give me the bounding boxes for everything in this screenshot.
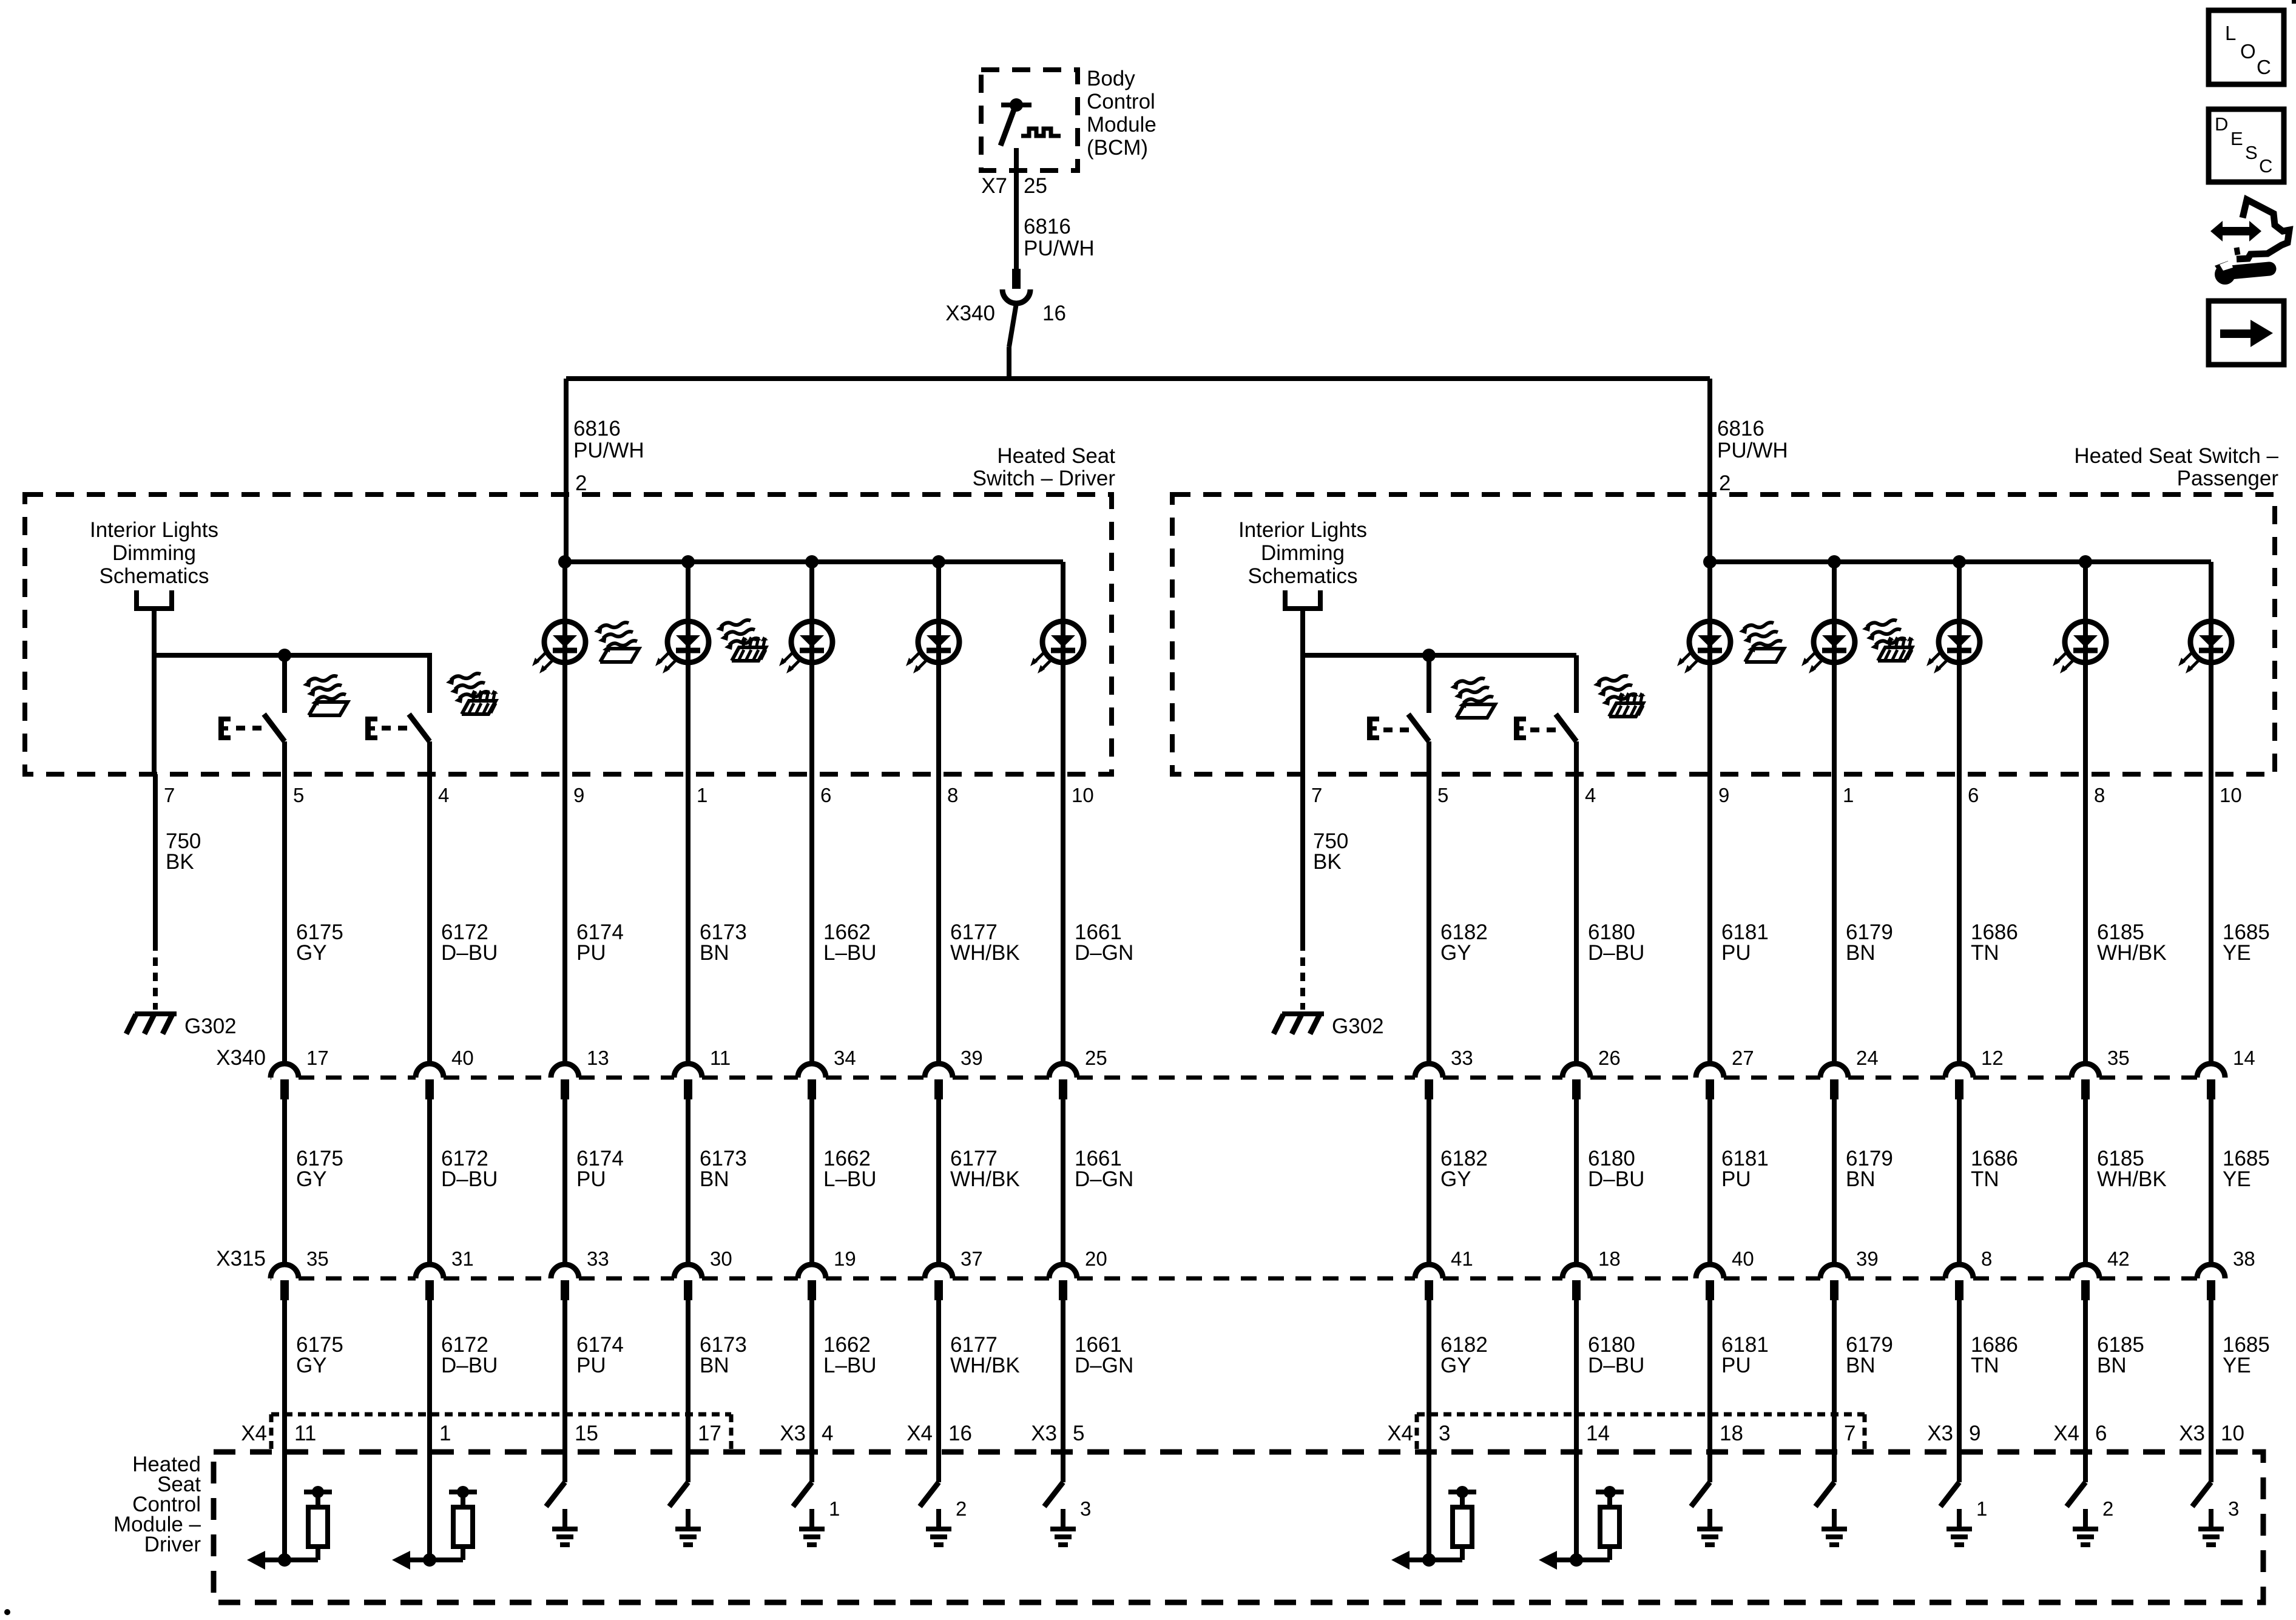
- svg-text:PU/WH: PU/WH: [573, 439, 644, 462]
- svg-text:X7: X7: [981, 174, 1007, 198]
- svg-text:E: E: [2230, 128, 2243, 149]
- svg-text:34: 34: [834, 1047, 856, 1069]
- svg-text:6816: 6816: [1024, 215, 1071, 238]
- svg-text:WH/BK: WH/BK: [2097, 1167, 2167, 1191]
- svg-text:PU: PU: [1721, 941, 1751, 965]
- svg-text:26: 26: [1598, 1047, 1621, 1069]
- svg-text:WH/BK: WH/BK: [950, 1354, 1020, 1377]
- svg-text:X340: X340: [216, 1046, 266, 1070]
- svg-text:BN: BN: [1846, 1167, 1876, 1191]
- svg-text:6: 6: [820, 784, 831, 806]
- svg-text:GY: GY: [1440, 1354, 1471, 1377]
- svg-text:1: 1: [1976, 1497, 1987, 1520]
- svg-text:D: D: [2215, 113, 2228, 135]
- svg-text:X4: X4: [2053, 1422, 2079, 1445]
- svg-text:10: 10: [2221, 1422, 2244, 1445]
- svg-text:16: 16: [948, 1422, 972, 1445]
- svg-text:X4: X4: [907, 1422, 933, 1445]
- svg-text:BN: BN: [700, 1354, 729, 1377]
- svg-text:TN: TN: [1971, 1167, 1999, 1191]
- svg-text:PU: PU: [1721, 1167, 1751, 1191]
- svg-text:GY: GY: [1440, 941, 1471, 965]
- svg-text:31: 31: [451, 1247, 474, 1270]
- svg-text:BN: BN: [2097, 1354, 2127, 1377]
- svg-text:10: 10: [2220, 784, 2242, 806]
- svg-text:35: 35: [2107, 1047, 2130, 1069]
- svg-text:19: 19: [834, 1247, 856, 1270]
- svg-text:11: 11: [294, 1422, 316, 1445]
- svg-text:BK: BK: [166, 850, 194, 874]
- svg-text:10: 10: [1072, 784, 1094, 806]
- svg-text:6: 6: [2095, 1422, 2107, 1445]
- svg-text:L–BU: L–BU: [823, 1167, 877, 1191]
- svg-text:PU/WH: PU/WH: [1717, 439, 1788, 462]
- svg-text:3: 3: [1080, 1497, 1091, 1520]
- svg-text:Heated Seat: Heated Seat: [997, 444, 1115, 468]
- svg-text:GY: GY: [296, 1167, 327, 1191]
- svg-text:S: S: [2245, 142, 2258, 163]
- svg-text:8: 8: [1981, 1247, 1992, 1270]
- svg-text:(BCM): (BCM): [1087, 136, 1148, 160]
- svg-text:27: 27: [1732, 1047, 1754, 1069]
- svg-text:1: 1: [697, 784, 707, 806]
- svg-text:2: 2: [575, 471, 587, 495]
- svg-text:L: L: [2225, 22, 2236, 44]
- svg-text:9: 9: [573, 784, 584, 806]
- svg-text:4: 4: [438, 784, 449, 806]
- svg-text:D–GN: D–GN: [1075, 941, 1133, 965]
- svg-text:X3: X3: [780, 1422, 806, 1445]
- svg-text:4: 4: [1585, 784, 1596, 806]
- svg-text:Control: Control: [1087, 90, 1155, 113]
- svg-text:40: 40: [451, 1047, 474, 1069]
- svg-text:Heated Seat Switch –: Heated Seat Switch –: [2074, 444, 2278, 468]
- svg-text:Dimming: Dimming: [1261, 541, 1345, 565]
- svg-text:20: 20: [1085, 1247, 1107, 1270]
- svg-text:D–BU: D–BU: [441, 1354, 498, 1377]
- svg-text:42: 42: [2107, 1247, 2130, 1270]
- svg-text:Body: Body: [1087, 67, 1135, 90]
- svg-text:2: 2: [2102, 1497, 2113, 1520]
- svg-text:Interior Lights: Interior Lights: [1238, 518, 1367, 542]
- svg-text:39: 39: [961, 1047, 983, 1069]
- svg-text:5: 5: [293, 784, 304, 806]
- svg-text:17: 17: [698, 1422, 721, 1445]
- svg-text:PU: PU: [1721, 1354, 1751, 1377]
- svg-text:X3: X3: [2179, 1422, 2205, 1445]
- svg-text:PU: PU: [576, 941, 606, 965]
- svg-text:BN: BN: [700, 1167, 729, 1191]
- svg-text:25: 25: [1024, 174, 1047, 198]
- svg-text:D–BU: D–BU: [1588, 941, 1644, 965]
- svg-text:18: 18: [1720, 1422, 1743, 1445]
- svg-text:O: O: [2240, 40, 2256, 62]
- svg-text:G302: G302: [184, 1014, 237, 1038]
- svg-text:16: 16: [1042, 302, 1066, 325]
- svg-text:Interior Lights: Interior Lights: [90, 518, 218, 542]
- svg-text:12: 12: [1981, 1047, 2004, 1069]
- svg-text:X4: X4: [1387, 1422, 1413, 1445]
- svg-text:D–BU: D–BU: [1588, 1354, 1644, 1377]
- svg-text:Schematics: Schematics: [100, 564, 209, 588]
- svg-text:8: 8: [2094, 784, 2105, 806]
- svg-text:YE: YE: [2223, 941, 2251, 965]
- svg-text:PU: PU: [576, 1354, 606, 1377]
- svg-text:37: 37: [961, 1247, 983, 1270]
- svg-text:PU/WH: PU/WH: [1024, 237, 1095, 260]
- svg-text:Module: Module: [1087, 113, 1156, 137]
- svg-text:BN: BN: [1846, 1354, 1876, 1377]
- svg-text:30: 30: [710, 1247, 732, 1270]
- svg-text:Driver: Driver: [144, 1533, 201, 1556]
- svg-text:8: 8: [947, 784, 958, 806]
- svg-text:33: 33: [587, 1247, 609, 1270]
- svg-text:GY: GY: [1440, 1167, 1471, 1191]
- svg-text:24: 24: [1856, 1047, 1879, 1069]
- svg-text:6: 6: [1968, 784, 1979, 806]
- svg-text:35: 35: [306, 1247, 329, 1270]
- svg-text:WH/BK: WH/BK: [950, 1167, 1020, 1191]
- svg-text:D–BU: D–BU: [1588, 1167, 1644, 1191]
- svg-text:C: C: [2259, 155, 2272, 177]
- svg-text:3: 3: [1439, 1422, 1450, 1445]
- svg-text:14: 14: [2233, 1047, 2255, 1069]
- svg-text:38: 38: [2233, 1247, 2255, 1270]
- svg-text:TN: TN: [1971, 1354, 1999, 1377]
- svg-text:5: 5: [1437, 784, 1448, 806]
- svg-text:L–BU: L–BU: [823, 1354, 877, 1377]
- svg-text:Dimming: Dimming: [112, 541, 196, 565]
- svg-text:G302: G302: [1332, 1014, 1384, 1038]
- svg-text:Passenger: Passenger: [2177, 467, 2279, 490]
- svg-text:17: 17: [306, 1047, 329, 1069]
- svg-text:D–BU: D–BU: [441, 941, 498, 965]
- svg-text:18: 18: [1598, 1247, 1621, 1270]
- svg-text:C: C: [2257, 56, 2271, 78]
- svg-text:7: 7: [164, 784, 175, 806]
- svg-text:13: 13: [587, 1047, 609, 1069]
- svg-text:2: 2: [1719, 471, 1730, 495]
- svg-text:3: 3: [2228, 1497, 2239, 1520]
- svg-text:7: 7: [1311, 784, 1322, 806]
- svg-text:1: 1: [1843, 784, 1854, 806]
- svg-text:YE: YE: [2223, 1167, 2251, 1191]
- svg-text:25: 25: [1085, 1047, 1107, 1069]
- svg-text:4: 4: [822, 1422, 833, 1445]
- svg-text:1: 1: [439, 1422, 451, 1445]
- svg-text:BN: BN: [1846, 941, 1876, 965]
- svg-text:X315: X315: [216, 1247, 266, 1271]
- svg-text:5: 5: [1073, 1422, 1084, 1445]
- svg-text:39: 39: [1856, 1247, 1879, 1270]
- svg-text:X340: X340: [945, 302, 995, 325]
- svg-text:1: 1: [829, 1497, 840, 1520]
- svg-text:D–GN: D–GN: [1075, 1354, 1133, 1377]
- svg-text:Schematics: Schematics: [1248, 564, 1358, 588]
- svg-text:11: 11: [710, 1047, 731, 1069]
- svg-text:2: 2: [956, 1497, 967, 1520]
- svg-text:40: 40: [1732, 1247, 1754, 1270]
- svg-text:PU: PU: [576, 1167, 606, 1191]
- svg-text:GY: GY: [296, 941, 327, 965]
- svg-text:GY: GY: [296, 1354, 327, 1377]
- svg-text:L–BU: L–BU: [823, 941, 877, 965]
- svg-text:TN: TN: [1971, 941, 1999, 965]
- svg-text:YE: YE: [2223, 1354, 2251, 1377]
- svg-text:WH/BK: WH/BK: [950, 941, 1020, 965]
- svg-text:41: 41: [1451, 1247, 1473, 1270]
- svg-text:D–BU: D–BU: [441, 1167, 498, 1191]
- svg-text:X4: X4: [241, 1422, 267, 1445]
- svg-text:9: 9: [1718, 784, 1729, 806]
- svg-text:14: 14: [1586, 1422, 1610, 1445]
- svg-text:15: 15: [575, 1422, 598, 1445]
- svg-text:9: 9: [1969, 1422, 1980, 1445]
- svg-text:7: 7: [1844, 1422, 1855, 1445]
- svg-text:6816: 6816: [573, 417, 621, 440]
- svg-text:33: 33: [1451, 1047, 1473, 1069]
- svg-text:X3: X3: [1031, 1422, 1057, 1445]
- svg-text:D–GN: D–GN: [1075, 1167, 1133, 1191]
- svg-text:X3: X3: [1927, 1422, 1953, 1445]
- svg-text:6816: 6816: [1717, 417, 1764, 440]
- svg-text:BK: BK: [1313, 850, 1342, 874]
- svg-text:WH/BK: WH/BK: [2097, 941, 2167, 965]
- svg-text:Switch – Driver: Switch – Driver: [973, 467, 1116, 490]
- svg-text:BN: BN: [700, 941, 729, 965]
